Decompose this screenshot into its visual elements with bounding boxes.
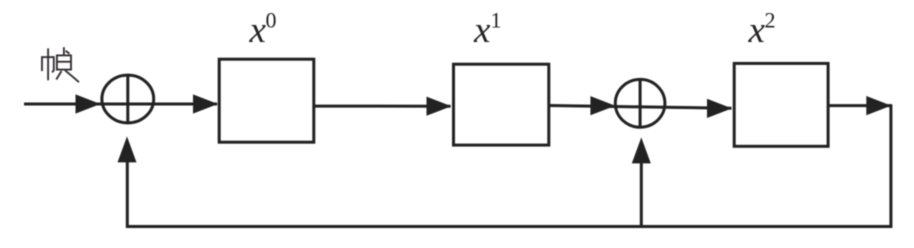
wire feedback right vertical: [889, 104, 892, 226]
wire feedback bottom horizontal: [127, 225, 892, 228]
svg-text:2: 2: [765, 8, 776, 33]
zhen right part BU dot: [66, 51, 70, 54]
arrowhead feedback up into adder U1: [118, 136, 137, 162]
register box X2: [734, 63, 828, 146]
svg-text:1: 1: [491, 8, 502, 33]
wire feedback branch rise to adder2: [640, 161, 643, 228]
zhen right part BEI middle bar: [57, 61, 71, 63]
arrowhead into adder U2: [590, 96, 615, 115]
zhen radical JIN left vertical: [41, 56, 43, 71]
wire box3 to output corner: [828, 104, 891, 107]
zhen right part BEI box: [57, 55, 71, 69]
zhen right part BEI right press stroke: [65, 70, 79, 82]
wire box1 to box2: [314, 105, 451, 108]
svg-text:x: x: [249, 10, 267, 51]
register box X1: [454, 64, 549, 145]
register box X0: [219, 59, 314, 142]
zhen right part BU stem: [63, 47, 65, 55]
zhen radical JIN right vertical with hook: [52, 56, 54, 72]
arrowhead into box X1: [427, 97, 452, 116]
label x^1 above box X1: [473, 8, 502, 52]
wire box2 through adder2 to box3: [549, 106, 732, 109]
zhen right part BEI left leg: [56, 71, 61, 80]
label x^0 above box X0: [249, 8, 277, 52]
arrowhead feedback up into adder U2: [632, 137, 651, 163]
adder U1 vertical cross line: [126, 75, 129, 122]
label Chinese character ZHEN (frame), hand drawn strokes: [41, 47, 79, 82]
arrowhead input into adder U1: [76, 94, 101, 113]
svg-text:x: x: [748, 10, 766, 51]
adder U2 circle (XOR): [615, 79, 665, 127]
adder U1 circle (XOR): [102, 75, 154, 123]
wire feedback left rise to adder1: [126, 160, 129, 228]
label x^2 above box X2: [748, 8, 776, 52]
arrowhead into box X2: [707, 99, 732, 118]
wire input segment into first adder: [24, 103, 217, 106]
zhen radical JIN center long vertical: [47, 48, 49, 80]
arrowhead into box X0: [193, 94, 218, 113]
arrowhead output into feedback corner: [866, 96, 891, 115]
zhen radical JIN top horizontal: [41, 56, 54, 58]
adder U2 vertical cross line: [639, 80, 642, 127]
svg-text:x: x: [473, 10, 491, 51]
svg-text:0: 0: [266, 8, 277, 33]
